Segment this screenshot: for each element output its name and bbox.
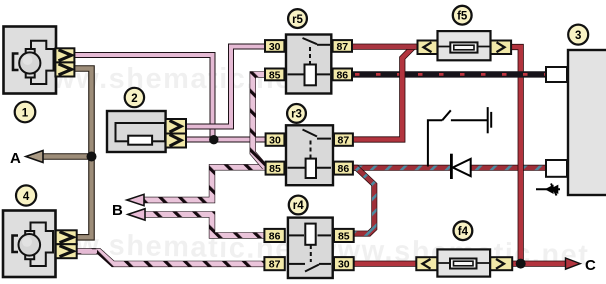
component 1 connector pins bbox=[55, 48, 74, 76]
relay r4 bbox=[288, 218, 333, 278]
svg-text:1: 1 bbox=[22, 108, 29, 120]
wire red fuse f5 right down to arrow C junction bbox=[511, 47, 521, 264]
relay r5 terminal 30 bbox=[265, 40, 284, 52]
node junction dot red C bbox=[516, 259, 526, 269]
relay r5 terminal 85 bbox=[265, 69, 284, 81]
relay r3 terminal 86 bbox=[334, 162, 353, 175]
component 4 fan motor bbox=[3, 211, 56, 278]
fuse f5 bbox=[418, 31, 512, 60]
svg-text:A: A bbox=[10, 150, 21, 167]
svg-text:2: 2 bbox=[131, 93, 137, 105]
arrow B bottom head bbox=[128, 209, 145, 220]
svg-text:87: 87 bbox=[338, 135, 350, 147]
relay r3 terminal 87 bbox=[334, 133, 353, 145]
svg-text:C: C bbox=[585, 257, 596, 274]
label r4 bbox=[289, 196, 308, 215]
svg-text:86: 86 bbox=[269, 231, 281, 243]
diode bbox=[450, 154, 471, 179]
component 3 arrow symbol bbox=[536, 184, 560, 196]
label 3 bbox=[568, 25, 588, 45]
relay r4 terminal 30 bbox=[334, 257, 354, 270]
svg-text:30: 30 bbox=[269, 135, 281, 147]
relay r3 terminal 30 bbox=[266, 133, 285, 145]
svg-text:86: 86 bbox=[338, 163, 350, 175]
svg-text:87: 87 bbox=[336, 41, 348, 53]
relay r4 terminal 87 bbox=[264, 257, 284, 270]
wire red fuse f4 right to arrow C bbox=[511, 261, 568, 267]
svg-text:r4: r4 bbox=[293, 200, 304, 212]
wire brown comp1 pin2 down to comp4 pin1 bbox=[74, 69, 92, 238]
component 2 bbox=[107, 111, 166, 152]
wire pink comp2 pin2 to relay r3 terminal 30 bbox=[186, 137, 266, 143]
wire black-red striped relay r5 terminal 86 to component 3 tab bbox=[352, 71, 547, 77]
svg-text:85: 85 bbox=[269, 69, 281, 81]
arrow C head bbox=[566, 258, 581, 269]
relay r3 bbox=[286, 125, 333, 185]
relay r3 terminal 85 bbox=[266, 162, 285, 175]
component 1 fuel pump bbox=[4, 27, 57, 94]
arrow B top head bbox=[127, 194, 144, 205]
arrow A head bbox=[26, 151, 43, 163]
component 3 bbox=[546, 50, 606, 195]
wire red relay r4 terminal 30 to fuse f4 bbox=[353, 261, 417, 267]
svg-text:B: B bbox=[112, 202, 123, 219]
label f4 bbox=[454, 221, 473, 240]
component 4 connector pins bbox=[56, 230, 77, 258]
svg-text:85: 85 bbox=[338, 231, 350, 243]
component 2 connector pins bbox=[166, 119, 186, 148]
relay r5 bbox=[286, 35, 331, 94]
svg-text:4: 4 bbox=[23, 191, 30, 203]
label f5 bbox=[453, 6, 472, 25]
svg-text:30: 30 bbox=[269, 41, 281, 53]
wire pink-black striped arrow B top to relay r3 terminal 85 bbox=[135, 167, 266, 200]
switch symbol bbox=[428, 107, 491, 166]
svg-text:85: 85 bbox=[269, 163, 281, 175]
wire red relay r5 terminal 87 to fuse f5 bbox=[352, 44, 418, 50]
wire red-blue striped relay r3 terminal 86 to component 3 lower tab bbox=[353, 165, 547, 171]
label r3 bbox=[287, 104, 306, 123]
wire pink comp2 pin1 to relay r5 terminal 30 bbox=[186, 47, 266, 127]
svg-text:r3: r3 bbox=[291, 109, 302, 121]
relay r5 terminal 87 bbox=[333, 40, 352, 52]
svg-text:86: 86 bbox=[336, 69, 348, 81]
wire red-blue striped branch r3-86 down to relay r4 terminal 85 bbox=[353, 168, 374, 234]
relay r4 terminal 86 bbox=[264, 229, 284, 242]
svg-text:f4: f4 bbox=[458, 226, 469, 238]
wire pink-black striped relay r5 terminal 85 to relay r3 terminal 85 bbox=[253, 74, 265, 167]
wire pink comp1 pin1 to junction on r3-30 line bbox=[74, 55, 213, 140]
wire red relay r3 terminal 87 up to fuse line bbox=[352, 47, 414, 140]
svg-text:3: 3 bbox=[575, 30, 581, 42]
wire pink-black striped arrow B bottom to relay r4 terminal 86 bbox=[136, 214, 265, 235]
label 1 bbox=[15, 102, 36, 123]
label 2 bbox=[125, 88, 144, 107]
node junction dot brown wire A bbox=[87, 152, 97, 162]
label 4 bbox=[16, 185, 36, 205]
fuse f4 bbox=[416, 249, 512, 276]
label r5 bbox=[288, 9, 307, 28]
wire brown branch to arrow A bbox=[38, 153, 92, 160]
relay r5 terminal 86 bbox=[333, 69, 352, 81]
svg-text:87: 87 bbox=[269, 259, 281, 271]
svg-text:f5: f5 bbox=[457, 10, 468, 22]
svg-text:30: 30 bbox=[338, 259, 350, 271]
relay r4 terminal 85 bbox=[334, 229, 354, 242]
node junction dot pink wires bbox=[209, 135, 218, 144]
wire pink-black striped comp4 pin2 to relay r4 terminal 87 bbox=[76, 251, 265, 264]
svg-text:r5: r5 bbox=[292, 14, 303, 26]
